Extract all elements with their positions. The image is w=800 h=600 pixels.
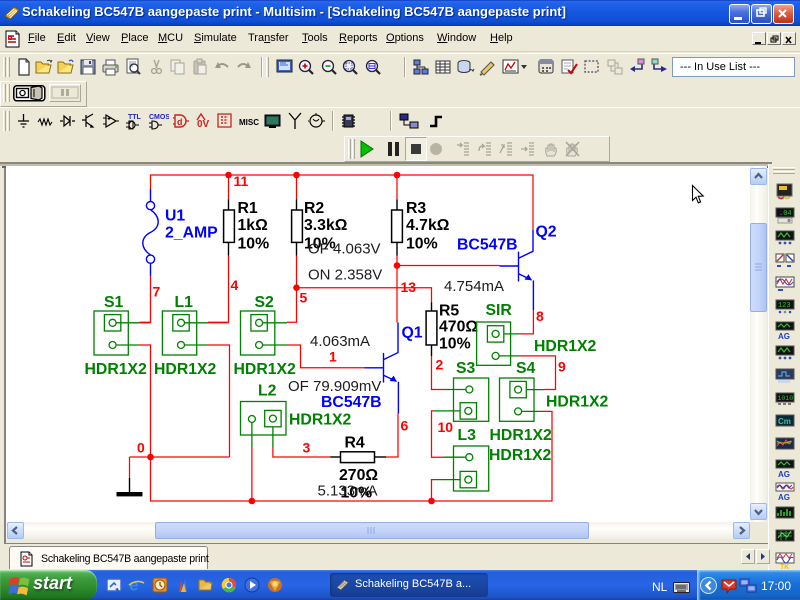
- wire net 2 (R5 to S3 pin1): [432, 356, 444, 390]
- wire net 3 (L2 pin2 to R4): [273, 448, 331, 457]
- connector L2 HDR1X2: [241, 402, 287, 449]
- junction dot net5: [293, 284, 300, 291]
- connector SIR HDR1X2: [477, 322, 520, 365]
- svg-text:0V: 0V: [197, 119, 210, 130]
- rule check: [560, 58, 578, 76]
- svg-text:AG: AG: [778, 493, 790, 501]
- basic (squiggle): [37, 116, 54, 128]
- wire net 13 down to Q1 collector: [396, 266, 398, 323]
- connector S1 HDR1X2: [94, 311, 140, 355]
- wire S1 pin1 stub: [140, 322, 151, 324]
- junction dot net11 at R3: [394, 172, 401, 179]
- resistor R5: [426, 303, 437, 357]
- label HDR1X2 (S1): [85, 361, 148, 378]
- wire net 5 vertical (R2 to S2 pin1): [287, 256, 297, 323]
- misc digital: [172, 112, 190, 130]
- connector S4 HDR1X2: [500, 378, 544, 421]
- zoom fit: [364, 58, 382, 76]
- save: [79, 58, 97, 76]
- fullscreen: [276, 58, 294, 76]
- wire net 0 (L2 pin1 to rail): [251, 448, 253, 501]
- junction dot rail at L3: [428, 498, 435, 505]
- svg-text:AG: AG: [778, 332, 790, 340]
- pause hand icons: [543, 140, 560, 158]
- label HDR1X2 (L2): [289, 412, 352, 429]
- copy (disabled): [169, 58, 187, 76]
- wire net 10 (S3 pin2 to L3 pin1): [432, 411, 444, 457]
- bus: [428, 113, 444, 129]
- transistor: [81, 113, 97, 129]
- junction dot net13: [394, 262, 401, 269]
- wire net 1 (S2 pin2 to Q1 base): [287, 345, 365, 368]
- electromech: [308, 113, 325, 129]
- svg-text:AG: AG: [778, 470, 790, 478]
- transfer (disabled): [606, 58, 624, 76]
- print: [101, 58, 120, 76]
- svg-text:TTL: TTL: [128, 114, 142, 121]
- label Q1: [402, 325, 423, 342]
- wire net 0 (L1 pin2 down): [208, 345, 230, 457]
- task button: [330, 573, 488, 597]
- stop pressed: [405, 137, 427, 161]
- junction dot rail at L2: [249, 498, 256, 505]
- label L2: [258, 383, 277, 400]
- mouse cursor: [693, 186, 704, 203]
- wire net 0 (S1 pin2 down): [140, 345, 151, 457]
- probe text 5.133mA: [318, 483, 378, 500]
- resistor R4: [331, 452, 387, 463]
- ground: [117, 457, 143, 496]
- pause: [386, 141, 401, 157]
- label R1 1kΩ 10%: [238, 200, 270, 253]
- probe text 4.063mA: [310, 333, 370, 350]
- erc: [479, 58, 497, 76]
- label BC547B (Q1): [321, 394, 382, 411]
- cut (disabled): [148, 58, 165, 76]
- probe text OF 79.909mV: [288, 378, 381, 395]
- node 11 label: [234, 173, 249, 189]
- wire net 9 (SIR pin2 to S4 pin1): [520, 356, 556, 390]
- label BC547B (Q2): [457, 237, 518, 254]
- svg-text:d: d: [177, 117, 183, 127]
- wire net 0 bottom rail: [151, 411, 553, 501]
- hierarchy: [412, 58, 430, 76]
- wire net 8 (Q2 emitter to SIR pin1): [520, 310, 533, 334]
- probe text OF 4.063V / ON 2.358V: [308, 241, 382, 284]
- tray NL + keyboard: [652, 580, 667, 594]
- label S3: [456, 360, 476, 377]
- indicators: [217, 113, 233, 129]
- MCU: [340, 112, 358, 130]
- wire net 4 (R1 to L1 pin1): [208, 256, 229, 323]
- svg-text:1010: 1010: [778, 395, 794, 402]
- label R2 3.3kΩ 10%: [304, 200, 348, 253]
- label R5 470Ω 10%: [439, 303, 478, 353]
- zoom out: [320, 58, 338, 76]
- zoom in: [297, 58, 315, 76]
- misc: [239, 117, 261, 127]
- power: [195, 112, 213, 130]
- in use list: [672, 57, 795, 77]
- svg-text:Cm: Cm: [778, 417, 791, 426]
- diode: [59, 114, 76, 128]
- connector S3 HDR1X2: [434, 378, 489, 421]
- label L3: [458, 427, 477, 444]
- postprocessor: [537, 58, 555, 76]
- wire net 4 stub to L1 pin1: [208, 322, 229, 324]
- node 1 label: [329, 349, 337, 365]
- new: [15, 58, 33, 76]
- analog: [102, 113, 120, 129]
- resistor R1: [224, 175, 235, 256]
- database: [456, 58, 475, 76]
- TTL: [125, 111, 145, 131]
- wire net 0 (L3 pin2 to rail): [432, 480, 435, 501]
- forward annotate: [651, 58, 669, 76]
- node 4 label: [231, 277, 239, 293]
- label Q2: [536, 224, 557, 241]
- grapher: [502, 58, 520, 76]
- label HDR1X2 (S2): [234, 361, 297, 378]
- label HDR1X2 (L3): [489, 447, 552, 464]
- spreadsheet: [434, 58, 452, 76]
- quick launch: [106, 577, 286, 595]
- wire net 13 to Q2 base: [397, 265, 500, 267]
- label L1: [175, 294, 194, 311]
- connector L3 HDR1X2: [434, 446, 489, 491]
- junction dot net11 at R2: [293, 172, 300, 179]
- probe text 4.754mA: [444, 278, 504, 295]
- label S1: [104, 294, 124, 311]
- node 13 label: [401, 279, 417, 295]
- CMOS: [147, 111, 169, 131]
- label SIR: [486, 302, 513, 319]
- svg-text:e: e: [129, 577, 138, 595]
- label HDR1X2 (SIR): [534, 338, 597, 355]
- wire net 5 horizontal to R5: [297, 288, 432, 303]
- zoom area: [341, 58, 359, 76]
- right instrument bar: [768, 164, 800, 570]
- resistor R3: [392, 175, 403, 266]
- peripherals: [264, 114, 282, 129]
- start button: [0, 570, 97, 600]
- label U1 2_AMP: [165, 208, 218, 242]
- wire net 7 (fuse to S1 pin1): [140, 276, 151, 322]
- node 6 label: [401, 418, 409, 434]
- label R4 270Ω 10%: [339, 435, 378, 502]
- connector S2 HDR1X2: [241, 311, 288, 355]
- connector L1 HDR1X2: [162, 311, 208, 355]
- node 10 label: [438, 419, 454, 435]
- open2: [57, 58, 76, 76]
- wire net 11 top power rail: [151, 175, 534, 230]
- transistor Q1 BC547B: [365, 323, 399, 414]
- wire net 6 (Q1 emitter to R4): [386, 414, 398, 458]
- preview: [124, 58, 142, 76]
- node 9 label: [558, 359, 566, 375]
- label HDR1X2 (L1): [154, 361, 217, 378]
- node 7 label: [153, 284, 161, 300]
- step icons (disabled): [455, 141, 471, 157]
- RF: [287, 112, 303, 130]
- svg-text:CMOS: CMOS: [149, 114, 169, 121]
- svg-text:.04: .04: [779, 210, 792, 218]
- label R3 4.7kΩ 10%: [406, 200, 450, 253]
- svg-text:123: 123: [778, 302, 791, 310]
- undo: [213, 59, 231, 75]
- open1: [35, 58, 54, 76]
- label HDR1X2 (S4): [546, 394, 609, 411]
- junction dot net11 at R1: [225, 172, 232, 179]
- resistor R2: [292, 175, 303, 256]
- node 3 label: [303, 440, 311, 456]
- toolbar rows placeholder: [0, 53, 800, 80]
- label S2: [255, 294, 275, 311]
- hierarchical block: [399, 112, 419, 130]
- redo: [235, 59, 253, 75]
- node 0 label: [137, 440, 145, 456]
- label S4: [516, 360, 536, 377]
- svg-text:MISC: MISC: [239, 118, 259, 127]
- node 8 label: [536, 308, 544, 324]
- sources (ground): [16, 113, 31, 130]
- wire net 0 horizontal: [130, 456, 230, 458]
- label HDR1X2 (S3): [490, 427, 553, 444]
- back annotate: [628, 58, 646, 76]
- play: [359, 140, 375, 158]
- node 5 label: [300, 290, 308, 306]
- junction dot net0: [147, 454, 154, 461]
- paste (disabled): [191, 58, 209, 76]
- node 2 label: [436, 357, 444, 373]
- scrollbars: [750, 166, 767, 522]
- fuse U1: [143, 189, 158, 276]
- tray section: [697, 570, 800, 600]
- transistor Q2 BC547B: [500, 230, 534, 310]
- region select: [583, 58, 601, 76]
- record: [429, 142, 443, 156]
